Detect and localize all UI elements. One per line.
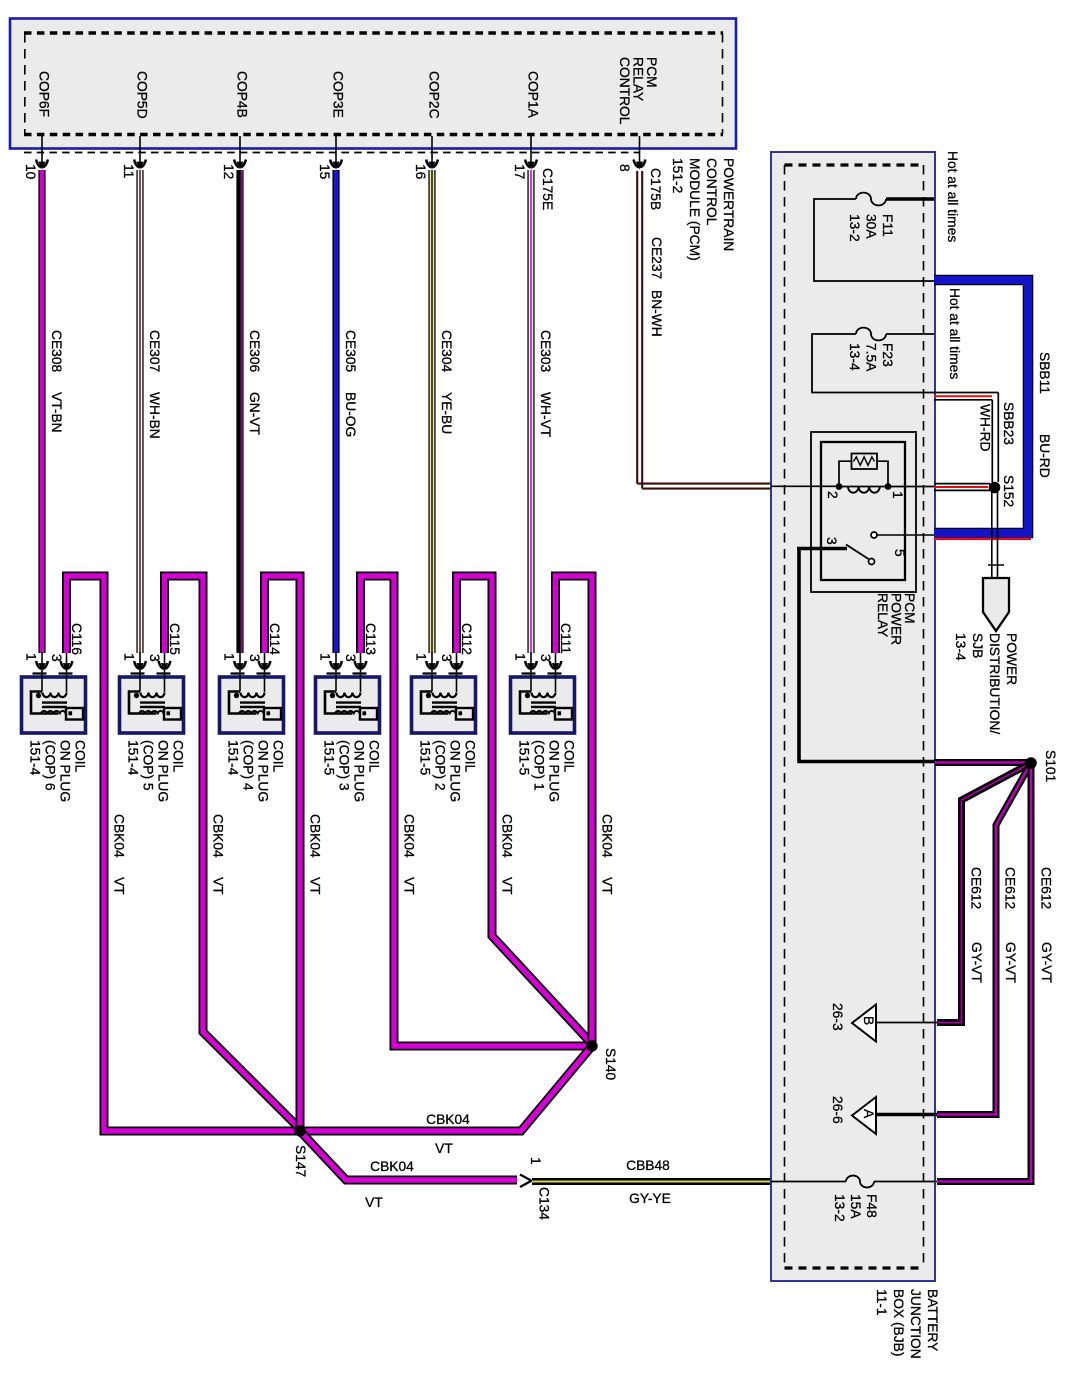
relay PCM POWER RELAY box xyxy=(811,432,916,592)
svg-text:VT: VT xyxy=(599,877,614,895)
svg-text:26-3: 26-3 xyxy=(830,1003,845,1031)
svg-text:30A: 30A xyxy=(863,214,878,239)
svg-text:YE-BU: YE-BU xyxy=(439,392,454,434)
svg-text:F11: F11 xyxy=(880,214,895,237)
connector B 26-3 xyxy=(852,1005,876,1042)
svg-text:C112: C112 xyxy=(459,623,474,655)
pin 3 of C115 xyxy=(164,652,166,678)
pin 15 xyxy=(335,136,337,166)
svg-text:F23: F23 xyxy=(880,343,895,367)
svg-text:CBK04: CBK04 xyxy=(599,814,614,858)
svg-text:COP6F: COP6F xyxy=(36,71,51,117)
svg-text:BU-RD: BU-RD xyxy=(1037,434,1052,478)
wire WH-RD relay to S152 xyxy=(888,486,936,488)
pin 11 xyxy=(139,136,141,166)
svg-text:CBB48: CBB48 xyxy=(626,1158,670,1173)
svg-text:COP2C: COP2C xyxy=(426,71,441,119)
svg-text:COIL: COIL xyxy=(72,740,87,773)
svg-text:S140: S140 xyxy=(603,1048,618,1081)
svg-text:11: 11 xyxy=(121,164,136,178)
svg-text:WH-BN: WH-BN xyxy=(147,392,162,439)
svg-text:C113: C113 xyxy=(363,623,378,655)
wire relay pin3 to S101 xyxy=(799,549,935,762)
relay switch xyxy=(877,534,934,536)
wire relay coil feed (inside BJB) xyxy=(771,485,839,487)
svg-text:VT: VT xyxy=(307,877,322,895)
ignition coil symbol xyxy=(129,678,181,720)
fuse F23 7.5A xyxy=(812,334,934,393)
coil-on-plug COP2 xyxy=(412,677,476,733)
svg-text:1: 1 xyxy=(317,653,332,661)
pin 8 xyxy=(639,136,641,166)
svg-text:COIL: COIL xyxy=(561,740,576,773)
svg-text:151-4: 151-4 xyxy=(225,740,240,776)
BJB inner dashed border xyxy=(785,165,924,1268)
wire CE237 BN-WH xyxy=(637,171,771,489)
wire CBK04 VT S147 to C134 xyxy=(300,1131,517,1180)
wire hot feed F11 xyxy=(886,197,934,201)
resistor (relay suppression) xyxy=(852,454,878,470)
wire to connector A xyxy=(876,1113,937,1116)
svg-text:3: 3 xyxy=(343,654,358,662)
ignition coil symbol xyxy=(325,678,377,720)
svg-text:CBK04: CBK04 xyxy=(401,814,416,858)
svg-text:10: 10 xyxy=(23,164,38,180)
wire CE306 GN-VT xyxy=(236,170,243,653)
svg-text:POWERTRAIN: POWERTRAIN xyxy=(721,158,736,251)
svg-text:3: 3 xyxy=(247,654,262,662)
pin 3 of C112 xyxy=(456,652,458,678)
svg-text:CE237: CE237 xyxy=(649,237,664,279)
svg-text:CBK04: CBK04 xyxy=(210,814,225,858)
svg-text:S147: S147 xyxy=(293,1145,308,1177)
svg-text:C111: C111 xyxy=(558,623,573,654)
svg-text:151-5: 151-5 xyxy=(516,740,531,776)
wire CBK04 VT bus S140 to S147 xyxy=(300,1046,592,1131)
wire CBK04 VT (COP2 leg) xyxy=(457,576,593,1044)
pin 10 xyxy=(41,136,43,166)
svg-text:ON PLUG: ON PLUG xyxy=(447,740,462,802)
svg-text:VT: VT xyxy=(401,877,416,895)
svg-text:JUNCTION: JUNCTION xyxy=(908,1289,923,1359)
svg-text:CE305: CE305 xyxy=(343,330,358,373)
svg-text:1: 1 xyxy=(528,1157,543,1165)
svg-text:8: 8 xyxy=(617,164,632,172)
svg-text:BU-OG: BU-OG xyxy=(343,392,358,437)
svg-text:SJB: SJB xyxy=(970,633,985,658)
connector C175E dashed line xyxy=(24,152,640,154)
svg-text:MODULE (PCM): MODULE (PCM) xyxy=(687,158,702,261)
svg-text:ON PLUG: ON PLUG xyxy=(57,740,72,802)
wire S101 feed xyxy=(935,759,1031,766)
svg-text:1: 1 xyxy=(23,653,38,661)
wire CE612 GY-VT (to B) xyxy=(937,763,1031,1023)
svg-text:RELAY: RELAY xyxy=(875,593,890,637)
splice S147 xyxy=(294,1125,305,1136)
svg-text:SBB23: SBB23 xyxy=(1001,402,1016,445)
connector POWER DISTRIBUTION SJB xyxy=(983,578,1009,631)
svg-text:CE612: CE612 xyxy=(1002,867,1017,909)
svg-text:POWER: POWER xyxy=(1004,633,1019,685)
svg-text:BATTERY: BATTERY xyxy=(925,1289,940,1351)
svg-text:C134: C134 xyxy=(536,1187,551,1220)
svg-text:CE307: CE307 xyxy=(147,330,162,372)
connector A 26-6 xyxy=(852,1097,876,1134)
svg-text:ON PLUG: ON PLUG xyxy=(155,740,170,802)
svg-text:11-1: 11-1 xyxy=(874,1289,889,1316)
svg-text:CBK04: CBK04 xyxy=(111,814,126,858)
svg-text:3: 3 xyxy=(538,654,553,662)
svg-text:CE306: CE306 xyxy=(247,330,262,373)
svg-text:(COP) 4: (COP) 4 xyxy=(240,740,255,791)
svg-text:CE303: CE303 xyxy=(538,330,553,373)
wire CBK04 VT (COP5 leg) xyxy=(165,576,301,1129)
pin 1 of C112 xyxy=(431,652,433,678)
svg-text:15: 15 xyxy=(317,164,332,180)
PCM inner dashed border xyxy=(24,31,723,34)
pin 1 of C115 xyxy=(139,652,141,678)
svg-text:S101: S101 xyxy=(1043,750,1058,782)
svg-text:151-2: 151-2 xyxy=(670,158,685,193)
wire CE303 WH-VT xyxy=(527,170,534,653)
svg-text:CBK04: CBK04 xyxy=(370,1159,414,1174)
connector C114 dashes xyxy=(231,672,275,674)
svg-text:WH-VT: WH-VT xyxy=(538,392,553,438)
pin 3 of C116 xyxy=(66,652,68,678)
svg-text:COP4B: COP4B xyxy=(234,71,249,118)
svg-text:(COP) 6: (COP) 6 xyxy=(42,740,57,791)
svg-text:13-4: 13-4 xyxy=(847,343,862,371)
coil-on-plug COP6 xyxy=(22,677,86,733)
svg-text:CE304: CE304 xyxy=(439,330,454,373)
pin 1 of C114 xyxy=(239,652,241,678)
pin 1 of C113 xyxy=(335,652,337,678)
fuse F48 15A xyxy=(771,1181,846,1183)
splice S101 xyxy=(1025,757,1037,769)
coil-on-plug COP3 xyxy=(316,677,380,733)
svg-text:1: 1 xyxy=(512,653,527,661)
svg-text:3: 3 xyxy=(824,537,839,545)
svg-text:151-5: 151-5 xyxy=(321,740,336,776)
svg-text:1: 1 xyxy=(221,653,236,661)
svg-text:ON PLUG: ON PLUG xyxy=(351,740,366,802)
svg-text:Hot at all times: Hot at all times xyxy=(945,151,960,242)
svg-text:(COP) 1: (COP) 1 xyxy=(531,740,546,791)
svg-text:VT: VT xyxy=(435,1141,453,1156)
svg-text:(COP) 5: (COP) 5 xyxy=(140,740,155,791)
svg-text:CONTROL: CONTROL xyxy=(617,57,632,125)
svg-text:BN-WH: BN-WH xyxy=(649,290,664,337)
splice S152 xyxy=(989,482,1001,494)
wire CBK04 VT (COP1 leg) xyxy=(556,576,593,1042)
pin 1 of C111 xyxy=(530,652,532,678)
pin 1 of C116 xyxy=(41,652,43,678)
pin 12 xyxy=(239,136,241,166)
svg-text:VT: VT xyxy=(210,877,225,895)
wire SBB23 WH-RD xyxy=(934,393,998,483)
svg-text:COIL: COIL xyxy=(270,740,285,773)
svg-text:S152: S152 xyxy=(1001,475,1016,507)
svg-text:12: 12 xyxy=(221,164,236,179)
svg-text:COIL: COIL xyxy=(462,740,477,773)
svg-text:CONTROL: CONTROL xyxy=(704,158,719,226)
svg-text:GY-VT: GY-VT xyxy=(969,942,984,983)
wire CBB48 GY-YE xyxy=(532,1178,771,1185)
svg-text:ON PLUG: ON PLUG xyxy=(546,740,561,802)
coil-on-plug COP5 xyxy=(120,677,184,733)
svg-text:COIL: COIL xyxy=(170,740,185,773)
svg-text:13-4: 13-4 xyxy=(953,633,968,661)
connector C112 dashes xyxy=(423,672,467,674)
svg-text:151-4: 151-4 xyxy=(125,740,140,776)
PCM module box xyxy=(10,19,736,149)
svg-text:3: 3 xyxy=(49,654,64,662)
svg-text:CBK04: CBK04 xyxy=(307,814,322,858)
svg-text:B: B xyxy=(861,1016,876,1025)
svg-text:2: 2 xyxy=(825,491,840,499)
svg-text:CE612: CE612 xyxy=(968,867,983,909)
connector C134 xyxy=(520,1175,532,1188)
svg-text:COP1A: COP1A xyxy=(525,71,540,119)
ignition coil symbol xyxy=(229,678,281,720)
wire CE307 WH-BN xyxy=(136,170,143,653)
connector C113 dashes xyxy=(327,672,371,674)
svg-text:CE612: CE612 xyxy=(1038,867,1053,909)
svg-text:C175B: C175B xyxy=(648,168,663,210)
svg-text:CE308: CE308 xyxy=(49,330,64,373)
svg-text:C115: C115 xyxy=(167,623,182,655)
svg-text:1: 1 xyxy=(413,653,428,661)
svg-text:13-2: 13-2 xyxy=(832,1194,847,1222)
svg-text:C114: C114 xyxy=(267,623,282,655)
relay coil xyxy=(839,486,888,488)
svg-text:DISTRIBUTION/: DISTRIBUTION/ xyxy=(987,633,1002,734)
wire CBK04 VT (COP6 leg) xyxy=(67,576,297,1131)
connector C116 dashes xyxy=(33,672,77,674)
svg-text:CBK04: CBK04 xyxy=(426,1112,470,1127)
svg-text:151-5: 151-5 xyxy=(417,740,432,776)
fuse F11 30A xyxy=(814,199,934,281)
svg-text:1: 1 xyxy=(121,653,136,661)
wire CBK04 VT (COP4 leg) xyxy=(265,576,301,1128)
wire S152 to SJB xyxy=(992,492,998,577)
svg-text:F48: F48 xyxy=(864,1194,879,1218)
pin 17 xyxy=(530,136,532,166)
svg-text:GY-VT: GY-VT xyxy=(1003,942,1018,983)
svg-text:C175E: C175E xyxy=(540,168,555,210)
connector C115 dashes xyxy=(131,672,175,674)
svg-text:GN-VT: GN-VT xyxy=(247,392,262,435)
svg-text:CBK04: CBK04 xyxy=(499,814,514,858)
svg-text:GY-YE: GY-YE xyxy=(629,1191,671,1206)
pin 16 xyxy=(431,136,433,166)
svg-text:3: 3 xyxy=(439,654,454,662)
wire CE612 GY-VT (to F48) xyxy=(937,763,1031,1182)
svg-text:5: 5 xyxy=(892,549,907,557)
battery junction box (BJB) xyxy=(771,152,935,1281)
wire SBB11 BU-RD xyxy=(934,280,1028,533)
svg-text:(COP) 2: (COP) 2 xyxy=(432,740,447,791)
wire CBK04 VT (COP3 leg) xyxy=(361,576,589,1046)
wire CE304 YE-BU xyxy=(428,170,435,653)
ignition coil symbol xyxy=(520,678,572,720)
svg-text:COP3E: COP3E xyxy=(330,71,345,118)
splice S140 xyxy=(586,1040,597,1051)
ignition coil symbol xyxy=(421,678,473,720)
svg-text:13-2: 13-2 xyxy=(847,214,862,242)
coil-on-plug COP1 xyxy=(511,677,575,733)
svg-text:VT: VT xyxy=(499,877,514,895)
svg-text:Hot at all times: Hot at all times xyxy=(947,288,962,379)
svg-text:VT: VT xyxy=(365,1195,383,1210)
svg-text:VT-BN: VT-BN xyxy=(49,392,64,433)
wire to connector B xyxy=(876,1022,937,1024)
svg-text:VT: VT xyxy=(111,877,126,895)
svg-text:WH-RD: WH-RD xyxy=(977,404,992,452)
svg-text:SBB11: SBB11 xyxy=(1037,352,1052,394)
wire CE612 GY-VT (to A) xyxy=(937,763,1031,1115)
svg-text:COIL: COIL xyxy=(366,740,381,773)
wire CE308 VT-BN xyxy=(38,170,45,653)
svg-text:1: 1 xyxy=(890,491,905,499)
svg-text:(COP) 3: (COP) 3 xyxy=(336,740,351,791)
svg-text:3: 3 xyxy=(147,654,162,662)
pin 3 of C111 xyxy=(555,652,557,678)
svg-text:26-6: 26-6 xyxy=(830,1096,845,1124)
pin 3 of C114 xyxy=(264,652,266,678)
svg-text:17: 17 xyxy=(512,164,527,179)
svg-text:7.5A: 7.5A xyxy=(863,343,878,372)
svg-text:16: 16 xyxy=(413,164,428,180)
coil-on-plug COP4 xyxy=(220,677,284,733)
svg-text:A: A xyxy=(861,1109,876,1119)
wire CE305 BU-OG xyxy=(332,170,339,653)
pin 3 of C113 xyxy=(360,652,362,678)
ignition coil symbol xyxy=(31,678,83,720)
svg-text:151-4: 151-4 xyxy=(27,740,42,776)
svg-text:COP5D: COP5D xyxy=(134,71,149,119)
svg-text:15A: 15A xyxy=(848,1194,863,1219)
connector C111 dashes xyxy=(522,672,566,674)
svg-text:C116: C116 xyxy=(69,623,84,655)
svg-text:BOX (BJB): BOX (BJB) xyxy=(891,1289,906,1356)
svg-text:ON PLUG: ON PLUG xyxy=(255,740,270,802)
svg-text:GY-VT: GY-VT xyxy=(1039,942,1054,983)
